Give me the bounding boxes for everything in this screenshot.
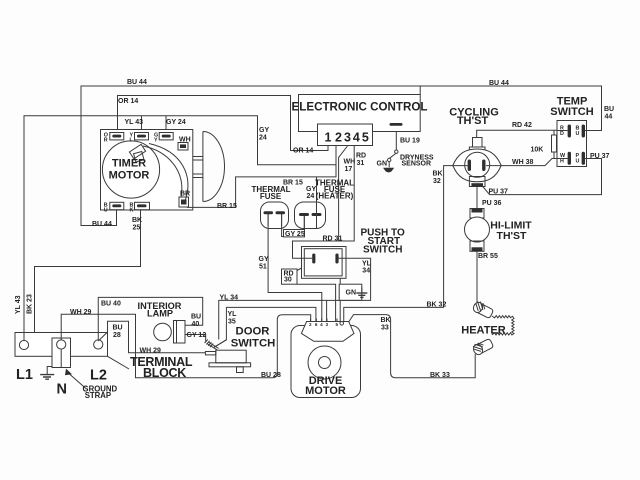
svg-text:R: R [104, 138, 108, 144]
svg-text:OR 14: OR 14 [293, 148, 313, 155]
svg-text:6: 6 [315, 322, 318, 327]
svg-text:4: 4 [353, 131, 360, 145]
svg-text:24: 24 [307, 193, 315, 200]
svg-text:RD 42: RD 42 [512, 122, 532, 129]
svg-text:LAMP: LAMP [147, 309, 173, 319]
svg-text:RD: RD [356, 153, 366, 160]
svg-text:HEATER: HEATER [461, 325, 505, 337]
svg-text:GY 24: GY 24 [166, 119, 186, 126]
svg-text:L1: L1 [16, 367, 33, 383]
svg-text:GN: GN [346, 290, 357, 297]
svg-text:TIMER: TIMER [112, 158, 146, 170]
svg-text:SWITCH: SWITCH [363, 245, 402, 256]
svg-text:40: 40 [192, 321, 200, 328]
svg-text:DOOR: DOOR [236, 326, 270, 338]
svg-text:5: 5 [336, 322, 339, 327]
svg-text:U: U [576, 131, 580, 137]
svg-text:PU 37: PU 37 [489, 189, 509, 196]
svg-text:17: 17 [345, 166, 353, 173]
svg-text:PU 36: PU 36 [482, 200, 502, 207]
svg-text:U: U [576, 159, 580, 165]
svg-text:28: 28 [113, 332, 121, 339]
svg-text:BU: BU [604, 106, 614, 113]
svg-text:BR 15: BR 15 [217, 203, 237, 210]
svg-text:WH 29: WH 29 [140, 348, 162, 355]
svg-text:10K: 10K [531, 147, 544, 154]
svg-text:TH'ST: TH'ST [497, 230, 527, 242]
svg-text:MOTOR: MOTOR [109, 170, 150, 182]
svg-text:SWITCH: SWITCH [550, 106, 593, 118]
svg-text:K: K [130, 208, 134, 214]
svg-text:MOTOR: MOTOR [305, 385, 346, 397]
svg-text:WH: WH [179, 137, 191, 144]
svg-text:BK: BK [132, 217, 142, 224]
svg-text:GN: GN [377, 161, 388, 168]
svg-text:44: 44 [605, 114, 613, 121]
svg-text:BU 44: BU 44 [92, 221, 112, 228]
svg-text:WH: WH [344, 159, 356, 166]
svg-text:BU 19: BU 19 [400, 138, 420, 145]
svg-text:STRAP: STRAP [85, 391, 111, 400]
svg-text:TH'ST: TH'ST [457, 115, 489, 127]
svg-text:2: 2 [309, 322, 312, 327]
svg-text:RD 31: RD 31 [323, 236, 343, 243]
svg-text:35: 35 [228, 319, 236, 326]
svg-text:BU 44: BU 44 [489, 80, 509, 87]
svg-text:BR 55: BR 55 [478, 253, 498, 260]
svg-text:25: 25 [133, 225, 141, 232]
svg-text:OR 14: OR 14 [118, 98, 138, 105]
svg-text:L2: L2 [90, 368, 107, 384]
svg-text:3: 3 [344, 131, 351, 145]
svg-text:YL 34: YL 34 [220, 295, 239, 302]
svg-text:(HEATER): (HEATER) [316, 192, 354, 201]
svg-text:GY 25: GY 25 [285, 231, 305, 238]
svg-text:PU 37: PU 37 [590, 153, 610, 160]
svg-text:BK 23: BK 23 [27, 294, 34, 314]
svg-text:BK: BK [433, 171, 443, 178]
svg-text:GY: GY [259, 127, 269, 134]
svg-text:SWITCH: SWITCH [231, 338, 276, 350]
svg-text:GY: GY [259, 256, 269, 263]
svg-text:WH 38: WH 38 [512, 159, 534, 166]
svg-text:BU: BU [113, 325, 123, 332]
svg-text:BK 32: BK 32 [427, 302, 447, 309]
svg-text:4: 4 [320, 322, 323, 327]
svg-text:32: 32 [433, 178, 441, 185]
svg-text:BU 40: BU 40 [101, 301, 121, 308]
svg-text:24: 24 [259, 135, 267, 142]
svg-text:GY 12: GY 12 [187, 332, 207, 339]
svg-text:YL 43: YL 43 [15, 295, 22, 314]
svg-text:BU 28: BU 28 [261, 372, 281, 379]
svg-text:N: N [57, 382, 67, 398]
svg-text:BK 33: BK 33 [430, 372, 450, 379]
svg-text:34: 34 [362, 268, 370, 275]
svg-text:ELECTRONIC CONTROL: ELECTRONIC CONTROL [292, 101, 428, 114]
svg-text:51: 51 [259, 264, 267, 271]
svg-text:BU: BU [191, 314, 201, 321]
svg-text:BK: BK [381, 317, 391, 324]
svg-text:YL 43: YL 43 [125, 119, 144, 126]
svg-text:BR: BR [180, 191, 190, 198]
svg-text:YL: YL [228, 311, 238, 318]
svg-text:1: 1 [325, 131, 332, 145]
svg-text:H: H [560, 159, 564, 165]
svg-text:FUSE: FUSE [260, 192, 282, 201]
svg-text:3: 3 [326, 322, 329, 327]
svg-text:5: 5 [362, 131, 369, 145]
svg-text:2: 2 [335, 131, 342, 145]
svg-text:31: 31 [357, 160, 365, 167]
svg-text:YL: YL [362, 261, 372, 268]
svg-text:D: D [560, 131, 564, 137]
svg-text:BLOCK: BLOCK [143, 366, 186, 380]
svg-text:WH 29: WH 29 [70, 309, 92, 316]
svg-text:33: 33 [381, 325, 389, 332]
svg-text:SENSOR: SENSOR [402, 161, 432, 168]
svg-text:Y: Y [154, 138, 158, 144]
svg-text:U: U [104, 208, 108, 214]
svg-text:BU 44: BU 44 [127, 79, 147, 86]
svg-text:30: 30 [284, 277, 292, 284]
